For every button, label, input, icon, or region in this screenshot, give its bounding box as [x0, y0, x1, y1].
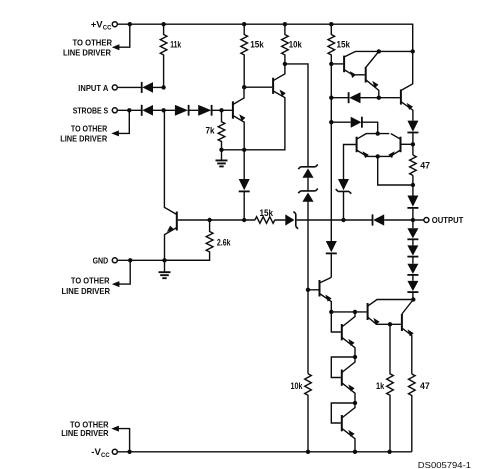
node arrow to other line driver 1 [63, 37, 119, 57]
transistor Qb [366, 51, 379, 97]
diode level-shift 2 [198, 105, 211, 116]
wire pair left base to zener [344, 145, 357, 180]
junction 11k top [161, 22, 165, 26]
node -Vcc terminal [91, 447, 117, 459]
wire Q1 collector to Q2 base [244, 86, 272, 88]
diode input A [142, 82, 153, 93]
diode chain D1 [407, 220, 418, 239]
diode row1 (points left) [349, 92, 361, 103]
svg-text:LINE DRIVER: LINE DRIVER [60, 134, 107, 144]
transistor Qe [368, 300, 414, 326]
junction 47 bottom [411, 183, 415, 187]
wire top rail [118, 24, 413, 51]
transistor Qg [390, 300, 414, 375]
junction 7k bottom [219, 148, 223, 152]
transistor pair (cross-connected) left [357, 134, 390, 159]
node OUTPUT terminal [424, 215, 463, 225]
junction output row / diode column [242, 218, 246, 222]
junction Qf collector node [353, 310, 357, 314]
diode above output [407, 196, 418, 208]
diode column (Q1 emitter path) [239, 150, 250, 220]
wire pair right base [401, 143, 413, 145]
diode x331 (points down) [326, 241, 337, 277]
junction mid row / diode column [242, 148, 246, 152]
svg-text:15k: 15k [260, 208, 274, 218]
junction strobe / 11k column [161, 108, 165, 112]
svg-text:INPUT A: INPUT A [78, 83, 108, 93]
transistor Qf (diode-connected) [331, 312, 355, 357]
transistor Qd [308, 277, 332, 312]
transistor Q1 [233, 87, 246, 150]
wire gnd row [118, 259, 210, 261]
transistor pair right [378, 134, 401, 159]
junction strobe stub [127, 108, 131, 112]
transistor Qa [344, 51, 365, 78]
resistor 11k [160, 24, 181, 87]
wire to-other-driver stub 3 [117, 260, 131, 284]
wire input A row [118, 86, 164, 88]
junction 10k top [283, 22, 287, 26]
resistor 47 (upper) [410, 155, 430, 175]
junction Q1 collector [242, 85, 246, 89]
diode row2 (points right) [351, 117, 362, 128]
svg-text:STROBE S: STROBE S [73, 106, 109, 116]
junction 15k top [242, 22, 246, 26]
zener diode (pair base, points down) [336, 179, 352, 220]
junction zener / output row [341, 218, 345, 222]
wire collector rail y51 [356, 50, 413, 52]
diode right column (below Qc) [407, 121, 418, 133]
junction diode row2 left [329, 120, 333, 124]
svg-text:LINE DRIVER: LINE DRIVER [62, 286, 111, 296]
junction Qd emitter node [329, 310, 333, 314]
transistor Qc [401, 51, 413, 120]
diode chain D3 [407, 257, 418, 275]
svg-text:GND: GND [93, 255, 109, 265]
svg-text:+V: +V [91, 20, 104, 31]
svg-text:15k: 15k [250, 40, 264, 50]
zener diode Z2 (up) [298, 189, 318, 202]
junction Q2 collector / 10k bottom [283, 62, 287, 66]
svg-text:CC: CC [103, 25, 112, 31]
wire to-other-driver stub 2 [116, 110, 129, 133]
junction rail chain [353, 450, 357, 454]
node +Vcc terminal [91, 20, 118, 32]
svg-text:15k: 15k [337, 40, 351, 50]
svg-text:TO OTHER: TO OTHER [71, 276, 110, 286]
svg-text:10k: 10k [291, 381, 304, 391]
junction input A / 11k [161, 85, 165, 89]
node arrow to other line driver 4 [61, 419, 119, 438]
wire 10k bottom to zener column [285, 64, 308, 167]
svg-text:7k: 7k [206, 126, 216, 136]
resistor 47 (lower) [408, 374, 429, 452]
resistor 15k (second) [328, 24, 351, 64]
wire bottom rail [118, 451, 412, 453]
svg-text:1k: 1k [376, 381, 385, 391]
svg-text:47: 47 [420, 381, 430, 391]
junction rail 10k [306, 450, 310, 454]
junction top-left [128, 22, 132, 26]
resistor 15k (horizontal) [255, 208, 275, 223]
junction Qh emitter node [353, 401, 357, 405]
svg-text:10k: 10k [289, 40, 303, 50]
node GND terminal [93, 255, 118, 265]
resistor 10k (bottom) [291, 374, 312, 452]
junction pair top [376, 131, 380, 135]
junction 2.6k top [207, 218, 211, 222]
junction pair right base node [411, 142, 415, 146]
junction gnd stub [128, 258, 132, 262]
junction diode chain bottom [411, 297, 415, 301]
resistor 1k [376, 324, 393, 452]
svg-text:11k: 11k [170, 40, 181, 50]
node arrow to other line driver 3 [62, 276, 120, 296]
svg-text:DS005794-1: DS005794-1 [418, 461, 472, 469]
diode chain D2 [407, 240, 418, 257]
junction 15k-2 top [329, 22, 333, 26]
wire pair bottom to 47 node [378, 156, 413, 185]
zener diode Z1 (up) [298, 165, 318, 191]
junction output node [411, 218, 415, 222]
wire right column upper [412, 133, 414, 220]
svg-text:-V: -V [91, 447, 101, 458]
junction diode row1 left [329, 96, 333, 100]
svg-text:2.6k: 2.6k [217, 237, 231, 247]
wire to-other-driver stub 4 [116, 429, 130, 452]
wire strobe row [118, 109, 232, 111]
node STROBE S terminal [73, 106, 118, 116]
diode level-shift 1 [175, 105, 189, 116]
transistor Q2 [273, 64, 286, 100]
resistor 7k [206, 110, 225, 150]
wire output row left [178, 219, 424, 221]
wire 7k node row [222, 100, 285, 150]
junction pair bottom [376, 154, 380, 158]
svg-text:CC: CC [101, 453, 110, 459]
diode (output row, points left) [373, 214, 385, 225]
svg-text:TO OTHER: TO OTHER [73, 37, 113, 47]
svg-text:TO OTHER: TO OTHER [71, 123, 107, 133]
transistor Q3 (pnp phase splitter) [164, 110, 176, 260]
wire x331 column upper [330, 64, 332, 241]
wire diode row 2 [331, 122, 377, 133]
wire base row Qe [331, 311, 366, 313]
wire to-other-driver stub 1 [117, 24, 130, 47]
svg-text:OUTPUT: OUTPUT [432, 215, 464, 225]
svg-text:LINE DRIVER: LINE DRIVER [63, 48, 111, 58]
zener diode (output row) [285, 212, 298, 229]
diode strobe input [142, 105, 153, 116]
svg-text:LINE DRIVER: LINE DRIVER [61, 428, 108, 438]
wire Qa base row [331, 63, 343, 65]
node INPUT A terminal [78, 83, 117, 93]
diode chain D4 [407, 276, 418, 300]
junction top right rail corner [411, 49, 415, 53]
junction Qf emitter node [353, 355, 357, 359]
junction rail 1k [387, 450, 391, 454]
junction bottom-left [127, 450, 131, 454]
resistor 10k (top) [282, 24, 303, 64]
resistor 15k (first) [241, 24, 265, 87]
junction Qg base node [388, 322, 392, 326]
junction Qb collector [377, 49, 381, 53]
junction Qb emitter / Qc base [377, 96, 381, 100]
ground (main) [159, 260, 171, 278]
svg-text:47: 47 [420, 161, 430, 171]
junction 15k-2 bottom [329, 62, 333, 66]
ground (7k node) [216, 150, 228, 167]
transistor Qh (diode-connected) [331, 357, 355, 403]
node arrow to other line driver 2 [60, 123, 119, 143]
junction Qd base [306, 288, 310, 292]
junction gnd / Q3 emitter [162, 258, 166, 262]
zener pair column: wire [307, 201, 309, 373]
wire diode row 1 [331, 97, 400, 99]
junction 7k top [219, 108, 223, 112]
resistor 2.6k [165, 220, 232, 260]
transistor Qi (diode-connected) [331, 403, 355, 452]
